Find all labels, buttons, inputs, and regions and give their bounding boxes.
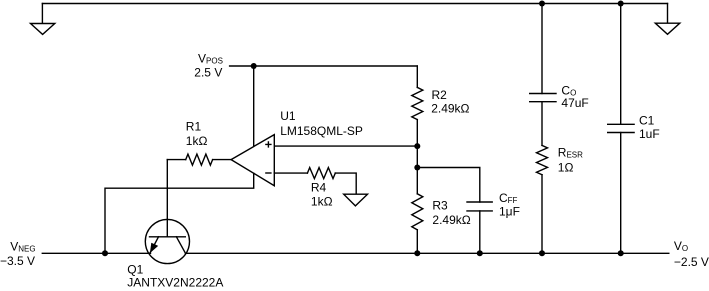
- resistor R3: [412, 194, 423, 254]
- node C1 bottom: [618, 250, 624, 256]
- wire VO rail: [186, 252, 669, 254]
- resistor R2: [412, 66, 423, 194]
- resistor RESR: [537, 145, 548, 253]
- node CFF tap: [414, 165, 420, 171]
- wire R1 to Q1 base: [166, 160, 168, 219]
- svg-text:R2: R2: [432, 88, 448, 102]
- svg-text:1Ω: 1Ω: [558, 160, 574, 174]
- transistor Q1: [145, 219, 189, 264]
- ground (R4): [344, 194, 368, 206]
- svg-text:2.49kΩ: 2.49kΩ: [431, 101, 469, 115]
- resistor R1: [167, 154, 212, 165]
- svg-text:CFF: CFF: [499, 191, 518, 205]
- node VPOS junction: [251, 63, 257, 69]
- ground (top right): [655, 4, 680, 35]
- svg-text:VPOS: VPOS: [198, 51, 223, 65]
- svg-text:1μF: 1μF: [499, 205, 520, 219]
- svg-text:−2.5 V: −2.5 V: [674, 255, 709, 269]
- node C1 top: [618, 1, 624, 7]
- svg-text:R4: R4: [311, 180, 327, 194]
- wire op-amp V+ supply: [253, 66, 255, 147]
- svg-text:2.49kΩ: 2.49kΩ: [432, 213, 470, 227]
- node CFF bottom: [477, 250, 483, 256]
- svg-text:1uF: 1uF: [639, 127, 660, 141]
- wire top ground rail: [42, 3, 667, 5]
- svg-text:R3: R3: [432, 199, 448, 213]
- wire divider to CFF: [417, 168, 480, 203]
- wire op-amp -input to R4: [274, 172, 307, 174]
- capacitor C1: [608, 4, 634, 254]
- wire VPOS to R2 top: [230, 65, 418, 67]
- svg-text:R1: R1: [186, 120, 202, 134]
- svg-text:−3.5 V: −3.5 V: [0, 254, 35, 268]
- node RESR bottom: [539, 250, 545, 256]
- svg-text:1kΩ: 1kΩ: [186, 134, 208, 148]
- wire op-amp output to R1: [213, 159, 232, 161]
- wire op-amp V- supply to VNEG rail: [105, 173, 254, 253]
- wire op-amp +input to divider: [274, 145, 417, 147]
- svg-text:VNEG: VNEG: [10, 240, 35, 254]
- svg-text:U1: U1: [280, 109, 296, 123]
- ground (top left): [31, 4, 55, 35]
- svg-text:VO: VO: [674, 239, 688, 253]
- svg-text:Q1: Q1: [127, 262, 143, 276]
- wire VNEG rail: [42, 252, 150, 254]
- node divider tap (+input): [414, 143, 420, 149]
- resistor R4: [307, 168, 356, 195]
- svg-text:1kΩ: 1kΩ: [311, 194, 333, 208]
- svg-text:LM158QML-SP: LM158QML-SP: [280, 124, 363, 138]
- capacitor CO: [530, 4, 556, 146]
- node CO top: [539, 1, 545, 7]
- node R3 bottom: [414, 250, 420, 256]
- node VNEG feedback junction: [102, 250, 108, 256]
- svg-text:2.5 V: 2.5 V: [194, 65, 222, 79]
- svg-text:47uF: 47uF: [561, 96, 588, 110]
- svg-text:C1: C1: [639, 113, 655, 127]
- capacitor CFF: [467, 202, 492, 253]
- op-amp U1: [231, 135, 274, 186]
- svg-text:JANTXV2N2222A: JANTXV2N2222A: [127, 276, 223, 290]
- svg-text:RESR: RESR: [558, 146, 583, 160]
